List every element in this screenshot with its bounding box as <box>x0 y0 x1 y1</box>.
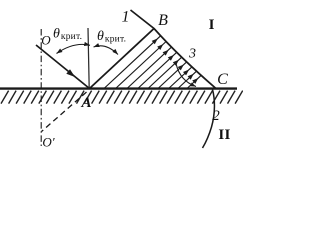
svg-text:1: 1 <box>122 9 130 26</box>
svg-text:II: II <box>218 127 230 143</box>
svg-text:I: I <box>209 17 215 33</box>
medium II hatching below interface <box>1 91 243 104</box>
svg-text:θкрит.: θкрит. <box>53 27 82 43</box>
refracted ray 2 below C <box>203 90 215 149</box>
reflected beam ray 2 <box>116 42 167 89</box>
angle arc θ крит (left, incident side) with arrowheads <box>57 44 91 53</box>
svg-text:B: B <box>158 12 168 29</box>
interface line (boundary between media I and II) <box>0 87 237 89</box>
reflected beam ray 5 <box>148 57 182 88</box>
reflected beam ray 8 <box>178 71 197 88</box>
svg-text:θкрит.: θкрит. <box>97 29 126 45</box>
curved arrow near C between wavefront and interface <box>176 64 196 87</box>
reflected beam ray 7 <box>169 67 192 89</box>
reflected beam ray 6 <box>158 62 187 89</box>
svg-text:A: A <box>80 95 91 111</box>
arrowhead on incident ray <box>66 69 75 77</box>
vertical dash-dot axis through O and O' <box>40 29 42 146</box>
reflected beam ray 9 <box>187 75 201 88</box>
reflected ray from A to B <box>90 29 155 89</box>
angle arc θ крит (right, reflected side) with arrowheads <box>94 46 119 55</box>
reflected beam ray 4 <box>138 52 177 88</box>
dashed back-extension of reflected ray from A to O' <box>42 92 87 132</box>
reflected beam ray 3 <box>127 47 172 88</box>
svg-text:2: 2 <box>212 108 220 124</box>
svg-text:O′: O′ <box>42 135 54 150</box>
wavefront line through B to C (labelled 1) <box>131 10 217 89</box>
svg-text:C: C <box>217 71 228 88</box>
svg-text:3: 3 <box>188 47 196 62</box>
svg-text:O: O <box>41 33 51 48</box>
incident ray from O to A <box>36 45 90 89</box>
normal line at A <box>88 28 89 89</box>
reflected beam ray 1 <box>104 36 161 89</box>
